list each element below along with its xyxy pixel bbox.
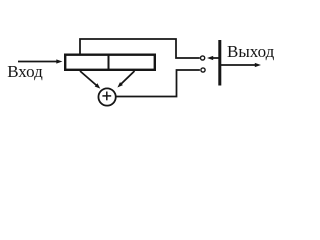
output arrowhead	[255, 63, 261, 67]
svg-text:Вход: Вход	[7, 62, 43, 81]
upper switch contact	[201, 56, 205, 60]
input arrowhead	[56, 59, 62, 63]
wire right tap arrow into summer	[121, 71, 135, 84]
svg-text:Выход: Выход	[227, 42, 275, 61]
summer circle	[98, 88, 115, 105]
summer plus sign	[102, 95, 111, 97]
cell divider	[108, 55, 110, 70]
wire feedback top: box top to upper switch contact	[80, 39, 200, 58]
output bus bar	[218, 40, 221, 86]
lower switch contact	[201, 68, 205, 72]
delay-line box (two cells)	[65, 55, 155, 70]
switch wiper arm with arrowhead	[212, 57, 219, 59]
wire left tap arrow into summer	[80, 71, 97, 86]
wire summer output to lower switch contact	[116, 70, 200, 97]
wire input line	[18, 61, 57, 63]
wire output line	[221, 64, 256, 66]
